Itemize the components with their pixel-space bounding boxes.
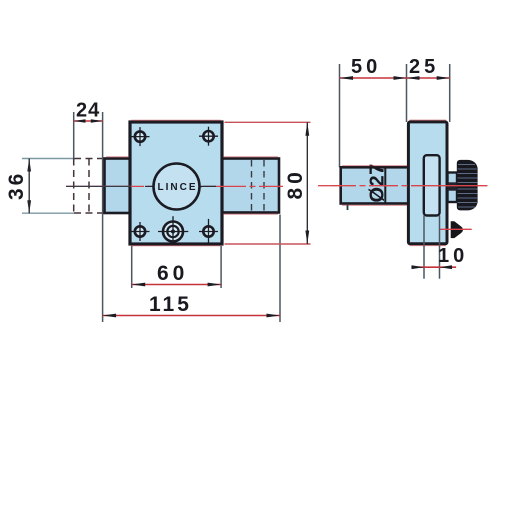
dimension 10 line with outside arrows <box>411 266 456 268</box>
knurled knob <box>457 160 478 211</box>
extension line left of 24 dim (vertical) <box>73 112 75 159</box>
dark centerline over ghost and bolt <box>66 185 131 187</box>
side view centerline (red chain) <box>331 185 488 187</box>
screw hole top-right <box>199 127 218 146</box>
cone pointer below knob <box>451 221 463 238</box>
svg-text:24: 24 <box>76 100 100 122</box>
svg-text:LINCE: LINCE <box>158 182 198 193</box>
screw hole bottom-left <box>131 222 150 241</box>
dimension 80 line with arrows <box>306 122 308 244</box>
extension line 60-left (vertical) <box>131 246 133 288</box>
extension line top of 36 dim (horizontal) <box>22 158 74 160</box>
dark centerline dashes near circle <box>145 185 154 187</box>
cone centerline (red) <box>440 228 472 230</box>
extension line 50-left (vertical) <box>339 64 341 167</box>
extension line 10-right (vertical) <box>439 216 441 279</box>
extension line 60-right (vertical) <box>220 246 222 288</box>
red scan fringe on edges <box>106 120 446 246</box>
screw hole top-left <box>131 127 150 146</box>
dimension 115 line with arrows <box>103 315 280 317</box>
knob neck <box>448 173 458 203</box>
dashed lines inside right protrusion <box>252 160 265 211</box>
keyhole cylinder bottom-center <box>158 216 188 244</box>
dimension 60 line with arrows <box>132 284 221 286</box>
long extension line at x=102.6 (24 right / 115 left) <box>102 112 104 322</box>
svg-text:115: 115 <box>149 293 192 316</box>
side body plate <box>408 122 447 244</box>
tick below cylinder bottom-left <box>347 204 349 210</box>
svg-text:80: 80 <box>284 168 307 199</box>
LINCE circle <box>154 164 200 210</box>
extension line 25-right (vertical) <box>449 64 451 122</box>
svg-text:50: 50 <box>351 56 381 78</box>
extension line bottom of 36 dim (horizontal) <box>22 212 74 214</box>
svg-text:60: 60 <box>157 262 188 285</box>
dimension 50/25 line <box>340 77 450 79</box>
ghost bolt dashed outline <box>74 159 104 214</box>
svg-text:Ø27: Ø27 <box>367 163 389 202</box>
dimension 24 line with arrows <box>74 120 103 122</box>
svg-text:25: 25 <box>409 56 439 78</box>
screw hole bottom-right <box>199 219 218 245</box>
front centerline (red chain) <box>66 185 283 187</box>
inner slot <box>424 155 440 215</box>
extension line 115-right (vertical) <box>279 215 281 323</box>
right bolt housing protrusion <box>222 159 279 213</box>
extension line 10-left (vertical) <box>423 216 425 279</box>
left bolt (solid) <box>105 159 132 214</box>
extension line 80-bottom (horizontal red) <box>225 243 311 245</box>
front body plate <box>130 122 222 244</box>
knob shaft shadow <box>448 182 457 190</box>
cylinder (barrel) of side view <box>341 167 409 203</box>
svg-text:10: 10 <box>438 245 468 267</box>
svg-text:36: 36 <box>5 171 28 200</box>
dimension 36 line with arrows <box>28 159 30 214</box>
extension line 50/25 middle (vertical) <box>406 64 408 122</box>
cylinder division line <box>384 168 386 203</box>
extension line 80-top (horizontal red) <box>225 121 311 123</box>
red centerline dash right of 80 dim <box>318 185 331 187</box>
